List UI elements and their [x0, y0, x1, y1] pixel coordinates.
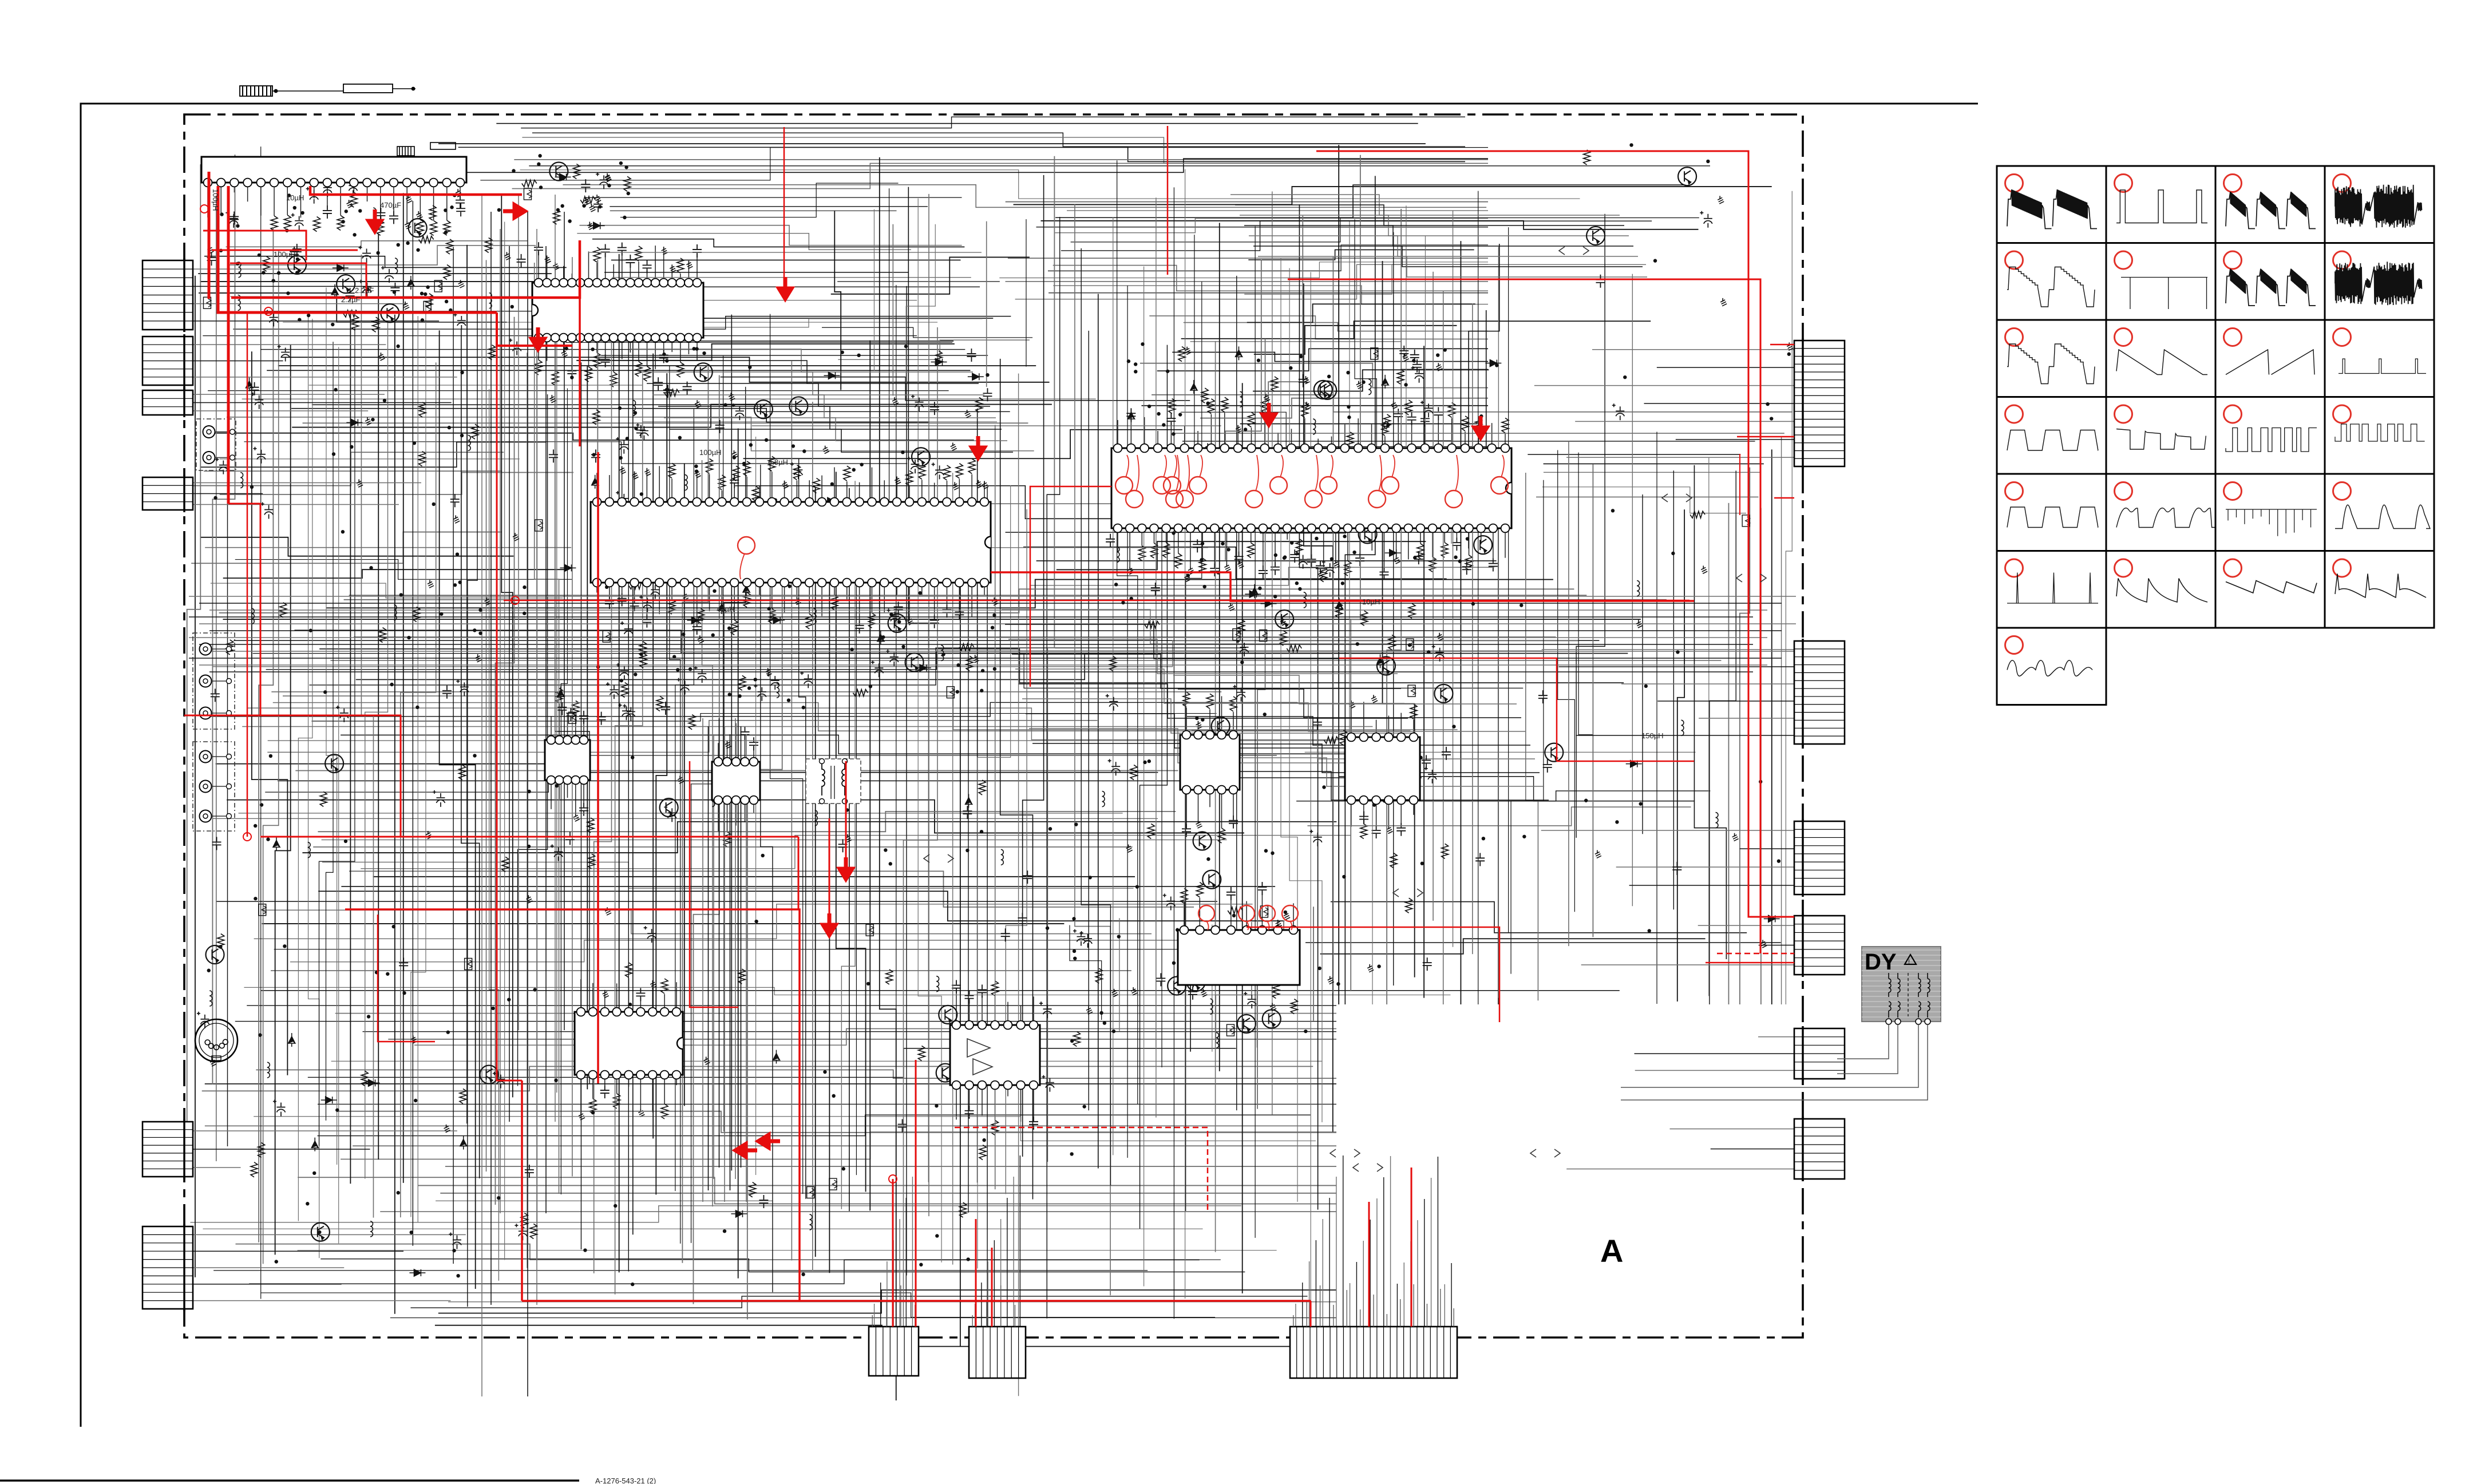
- wire: [1534, 385, 1794, 386]
- capacitor: [1538, 690, 1548, 703]
- connector CN201 (right edge): [1794, 341, 1845, 466]
- wire: [231, 296, 572, 297]
- wire: [239, 813, 1123, 814]
- wire: [1006, 201, 1488, 203]
- resistor boxed: [1226, 1024, 1234, 1036]
- wire: [274, 949, 1279, 950]
- waveform cell 1-3: [2215, 166, 2325, 243]
- wire: [199, 603, 1782, 604]
- wire: [298, 1177, 1336, 1204]
- wire: [318, 812, 1176, 832]
- wire: [192, 452, 504, 485]
- wire: [1140, 363, 1488, 388]
- resistor: [979, 780, 986, 795]
- transistor Q: [409, 219, 427, 237]
- connector CN101 (left edge): [143, 260, 193, 330]
- resistor: [1340, 730, 1347, 745]
- capacitor: [230, 211, 239, 224]
- zener diode: [1377, 654, 1384, 668]
- wire: [242, 726, 1372, 727]
- resistor: [1073, 1032, 1080, 1047]
- wire: [1018, 374, 1019, 1396]
- pin leads of U601: [580, 979, 581, 1012]
- wire: [581, 319, 983, 327]
- capacitor C+: [800, 671, 813, 688]
- ground: [1088, 1006, 1089, 1010]
- wire: [193, 1149, 370, 1150]
- wire: [664, 418, 1007, 441]
- wire: [874, 1304, 875, 1327]
- wire: [532, 133, 1465, 147]
- wire: [223, 569, 567, 578]
- transistor Q: [1168, 976, 1186, 995]
- resistor: [664, 389, 679, 396]
- wire: [330, 660, 1721, 661]
- waveform trace 2-1: [2007, 267, 2095, 307]
- red signal arrow: [369, 209, 381, 231]
- transistor Q: [660, 798, 678, 817]
- capacitor: [1399, 346, 1408, 359]
- wire: [1592, 464, 1593, 937]
- capacitor C+: [731, 403, 744, 420]
- zener diode: [718, 600, 725, 614]
- wire: [1417, 1220, 1418, 1327]
- ground: [429, 580, 430, 583]
- wire: [836, 472, 866, 1192]
- wire: [545, 246, 547, 1213]
- wire: [1451, 1263, 1452, 1327]
- red highlighted wire: [218, 186, 497, 312]
- wire: [187, 164, 201, 1122]
- wire: [1257, 920, 1284, 1047]
- red highlighted wire: [1770, 344, 1794, 346]
- resistor: [573, 164, 580, 179]
- capacitor C+: [515, 1224, 527, 1240]
- wire: [283, 696, 1458, 730]
- wire: [1410, 1241, 1411, 1327]
- wire: [1699, 718, 1794, 719]
- wire: [1758, 1036, 1794, 1038]
- wire: [303, 422, 1028, 424]
- capacitor: [1313, 717, 1322, 730]
- wire: [1006, 509, 1027, 1194]
- capacitor: [390, 283, 399, 296]
- zener diode: [1235, 346, 1242, 360]
- waveform cell 3-2: [2106, 320, 2215, 397]
- ground: [209, 246, 210, 249]
- wire: [986, 221, 987, 387]
- wire: [414, 1028, 1336, 1045]
- capacitor C+: [623, 704, 635, 721]
- wire: [203, 335, 917, 337]
- capacitor C+: [306, 187, 319, 204]
- ground: [515, 533, 516, 536]
- diode: [409, 1269, 425, 1276]
- wire: [693, 375, 719, 1304]
- wire: [1304, 283, 1333, 1131]
- capacitor C+: [616, 663, 629, 680]
- ground: [1186, 347, 1188, 350]
- waveform number circle 6-4: [2333, 559, 2351, 577]
- inductor: [813, 608, 816, 614]
- DIN connector J801: [195, 1019, 238, 1062]
- resistor: [521, 1213, 528, 1228]
- wire: [271, 691, 1221, 692]
- ground: [894, 397, 895, 401]
- wire: [319, 328, 354, 1146]
- wire: [496, 123, 1418, 124]
- wire: [752, 425, 1221, 426]
- test point circles on U401: [1115, 477, 1133, 494]
- wire: [261, 990, 1620, 991]
- wire: [203, 1228, 1202, 1229]
- inductor: [252, 608, 255, 614]
- wire: [308, 311, 319, 1259]
- wire: [691, 356, 723, 1243]
- red highlighted wire: [203, 231, 306, 260]
- wire: [604, 272, 908, 273]
- wire: [619, 254, 620, 1272]
- connector CN203 (right edge): [1794, 821, 1845, 895]
- capacitor: [290, 247, 299, 260]
- wire: [215, 433, 974, 440]
- capacitor C+: [618, 703, 631, 720]
- wire: [254, 1117, 1316, 1141]
- capacitor: [250, 382, 259, 395]
- wire: [1031, 567, 1494, 585]
- wire: [326, 288, 337, 1165]
- resistor: [419, 236, 434, 243]
- capacitor C+: [887, 608, 900, 625]
- wire: [1263, 487, 1498, 488]
- waveform cell 2-4: [2325, 243, 2434, 320]
- svg-text:47µH: 47µH: [717, 605, 734, 614]
- wire: [612, 277, 971, 278]
- pin leads of U504: [1184, 904, 1185, 930]
- wire: [1002, 610, 1391, 644]
- wire: [1542, 649, 1794, 650]
- wire: [713, 734, 714, 1179]
- red signal arrow: [735, 1144, 757, 1157]
- wire: [1295, 1304, 1296, 1327]
- capacitor C+: [1432, 645, 1445, 662]
- red highlighted wire: [1411, 1168, 1412, 1327]
- capacitor: [983, 388, 992, 401]
- wire: [1172, 352, 1488, 361]
- capacitor C+: [911, 395, 924, 411]
- wire: [1048, 292, 1488, 294]
- wire: [1424, 1199, 1425, 1327]
- wire: [1759, 945, 1794, 946]
- capacitor: [591, 449, 600, 462]
- red node circles: [200, 205, 208, 213]
- wire: [682, 366, 708, 1263]
- wire: [1067, 210, 1488, 211]
- wire: [1014, 187, 1772, 204]
- waveform trace 5-2: [2116, 508, 2226, 528]
- wire: [635, 361, 979, 383]
- red highlighted wire: [247, 312, 248, 837]
- resistor: [1408, 603, 1415, 618]
- pin leads of U301: [596, 473, 598, 502]
- inductor: [238, 262, 241, 267]
- wire: [298, 319, 312, 1221]
- capacitor C+: [215, 458, 228, 474]
- capacitor: [566, 708, 575, 721]
- transistor Q: [1678, 167, 1696, 185]
- wire: [1040, 221, 1698, 229]
- wire: [738, 428, 739, 1278]
- wire: [1406, 205, 1407, 484]
- capacitor: [1412, 359, 1422, 373]
- op-amp U201 body: [532, 283, 703, 338]
- wire: [588, 252, 982, 253]
- waveform trace 3-4: [2339, 359, 2426, 374]
- ground: [1306, 402, 1307, 405]
- wire: [1248, 250, 1474, 259]
- capacitor C+: [871, 660, 884, 677]
- capacitor: [597, 712, 606, 725]
- wire: [1008, 639, 1398, 674]
- inductor: [1637, 581, 1640, 586]
- wire: [1511, 480, 1544, 974]
- wire: [1781, 437, 1782, 1004]
- wire: [205, 547, 571, 548]
- zener diode: [877, 631, 884, 645]
- capacitor C+: [596, 172, 608, 189]
- wire: [205, 1125, 1336, 1126]
- wire: [227, 417, 1034, 451]
- wire: [1061, 221, 1652, 251]
- transistor Q: [1314, 381, 1332, 399]
- resistor boxed: [424, 301, 431, 312]
- capacitor C+: [1236, 640, 1249, 656]
- diode: [687, 617, 703, 624]
- resistor: [1397, 369, 1404, 384]
- wire: [536, 229, 537, 1305]
- wire: [1029, 729, 1418, 763]
- zener diode: [460, 1136, 467, 1150]
- wire: [977, 409, 978, 1183]
- red highlighted wire: [1247, 927, 1499, 1022]
- ground: [460, 280, 461, 283]
- capacitor C+: [694, 666, 707, 683]
- wire: [1000, 359, 1033, 1200]
- resistor: [976, 397, 983, 412]
- wire: [1363, 1241, 1364, 1327]
- resistor: [485, 238, 492, 252]
- resistor: [522, 180, 537, 187]
- wire: [1149, 316, 1488, 339]
- waveform number circle 5-4: [2333, 482, 2351, 500]
- jumper box: [430, 143, 456, 149]
- wire: [1329, 1198, 1330, 1327]
- transistor Q: [694, 363, 713, 381]
- waveform number circle 7-1: [2005, 636, 2023, 654]
- resistor: [1390, 853, 1397, 868]
- wire: [837, 281, 1000, 282]
- capacitor: [1156, 973, 1165, 986]
- wire: [1057, 541, 1426, 569]
- wire: [1656, 432, 1657, 1004]
- capacitor: [1188, 987, 1197, 1000]
- ground: [455, 515, 456, 519]
- wire: [730, 734, 731, 1190]
- wire: [216, 901, 1217, 902]
- waveform cell 6-1: [1997, 551, 2106, 628]
- wire: [535, 263, 559, 1194]
- op-amp U401 body: [1111, 448, 1512, 528]
- wire: [1249, 236, 1638, 256]
- wire: [453, 247, 454, 1264]
- ground: [1373, 695, 1374, 698]
- waveform trace 4-1: [2007, 430, 2098, 451]
- wire: [1036, 560, 1497, 561]
- wire: [235, 1021, 1336, 1022]
- wire: [1350, 221, 1372, 1004]
- wire: [275, 345, 291, 1255]
- capacitor: [376, 208, 385, 221]
- wire: [905, 1198, 907, 1327]
- resistor: [1169, 399, 1176, 414]
- resistor: [1238, 619, 1245, 634]
- ground: [600, 1027, 602, 1031]
- op-amp U102 body: [545, 740, 590, 780]
- capacitor C+: [1244, 992, 1256, 1008]
- svg-text:A: A: [1600, 1233, 1623, 1269]
- transistor Q: [1263, 1010, 1281, 1028]
- wire: [1240, 424, 1477, 425]
- wire: [978, 485, 1011, 1268]
- resistor: [1584, 150, 1590, 165]
- wire: [1566, 457, 1794, 458]
- resistor: [459, 765, 466, 780]
- wire: [209, 651, 1796, 652]
- wire: [1632, 274, 1633, 907]
- waveform cell 1-1: [1997, 166, 2106, 243]
- wire: [1508, 227, 1509, 932]
- inductor: [209, 991, 212, 996]
- wire: [412, 201, 413, 1246]
- capacitor C+: [1700, 211, 1712, 228]
- inductor: [1001, 849, 1004, 854]
- wire: [481, 195, 482, 1396]
- wire: [1012, 654, 1401, 688]
- svg-text:6.8µH: 6.8µH: [768, 458, 788, 466]
- wire: [298, 1250, 1277, 1251]
- zener diode: [407, 276, 414, 290]
- wire: [1013, 1177, 1014, 1327]
- wire: [615, 373, 643, 1294]
- svg-text:2.2µF: 2.2µF: [355, 286, 374, 295]
- zener diode: [1336, 598, 1343, 612]
- resistor: [918, 1046, 925, 1060]
- wire: [209, 671, 1753, 672]
- transistor Q: [1545, 743, 1563, 762]
- svg-text:100µH: 100µH: [211, 189, 220, 211]
- wire: [247, 1005, 1336, 1006]
- wire: [208, 702, 1298, 716]
- wire: [1162, 235, 1194, 1067]
- transistor Q: [789, 397, 808, 415]
- waveform cell 6-2: [2106, 551, 2215, 628]
- inductor: [712, 791, 715, 796]
- waveform trace 5-1: [2007, 507, 2098, 528]
- ground: [212, 1058, 213, 1062]
- inductor: [373, 208, 376, 213]
- red highlighted wire: [1339, 658, 1557, 761]
- wire: [436, 1201, 1336, 1212]
- wire: [1113, 217, 1114, 1155]
- connector CN106 (left edge): [143, 1226, 193, 1309]
- transistor Q: [548, 737, 567, 755]
- red highlighted wire: [1739, 454, 1740, 515]
- wire: [899, 1219, 900, 1327]
- waveform cell 3-3: [2215, 320, 2325, 397]
- capacitor: [346, 288, 355, 301]
- ground: [978, 480, 979, 484]
- wire: [1307, 807, 1691, 826]
- wire: [631, 300, 917, 301]
- resistor: [263, 256, 270, 271]
- capacitor C+: [1108, 759, 1121, 775]
- capacitor C+: [278, 345, 290, 361]
- diode: [560, 564, 576, 571]
- wire: [708, 726, 709, 1190]
- wire: [1048, 245, 1488, 271]
- wire: [490, 212, 492, 1305]
- capacitor: [1462, 561, 1471, 575]
- wire: [344, 599, 1667, 600]
- wire: [341, 735, 1383, 754]
- pin leads of U001: [207, 183, 208, 217]
- wire: [212, 641, 1578, 667]
- ground: [405, 302, 406, 305]
- diode: [321, 1097, 337, 1103]
- inductor: [1681, 720, 1684, 725]
- relay box: [343, 84, 393, 93]
- pin leads of U502: [1186, 707, 1187, 735]
- wire: [337, 1111, 1336, 1133]
- wire: [1578, 453, 1593, 892]
- wire: [260, 147, 262, 1299]
- capacitor: [442, 686, 452, 699]
- waveform trace 3-2: [2116, 350, 2207, 375]
- wire: [1629, 885, 1794, 886]
- zener diode: [1190, 380, 1197, 394]
- capacitor: [593, 199, 603, 212]
- ground: [607, 907, 608, 911]
- resistor: [444, 265, 450, 280]
- ground: [1305, 376, 1306, 379]
- wire: [378, 234, 379, 1160]
- wire: [770, 314, 803, 1194]
- wire: [1708, 457, 1710, 996]
- inductor: [240, 472, 243, 477]
- wire: [719, 718, 720, 1168]
- capacitor C+: [639, 595, 652, 612]
- wire: [1022, 699, 1411, 733]
- wire: [1000, 1219, 1002, 1327]
- wire: [226, 241, 528, 247]
- capacitor C+: [359, 246, 371, 263]
- wire: [903, 327, 937, 1336]
- resistor: [1442, 844, 1449, 858]
- wire: [1299, 204, 1317, 1210]
- wire: [1343, 1155, 1344, 1327]
- wire: [563, 185, 1486, 208]
- wire: [1244, 225, 1633, 246]
